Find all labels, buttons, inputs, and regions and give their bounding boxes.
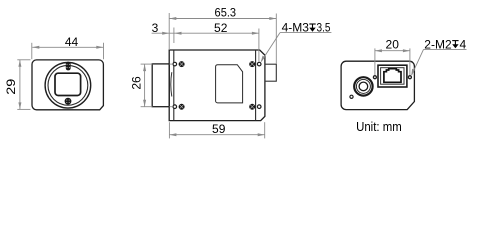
svg-text:52: 52 — [214, 21, 228, 35]
sensor window — [55, 73, 81, 95]
dimension 44 (front width) — [32, 43, 104, 59]
M2 hole right — [408, 76, 411, 79]
camera body back — [341, 61, 414, 109]
dimension 3 and 52 shared line — [152, 28, 259, 62]
connector on back (side view) — [265, 64, 276, 81]
LED — [350, 95, 353, 98]
M2 hole left — [373, 76, 376, 79]
lens mount inner circle — [48, 65, 88, 105]
svg-text:3: 3 — [152, 21, 159, 35]
M3 hole top-left — [173, 62, 177, 66]
depth symbol (4-M3) — [309, 24, 315, 28]
screw side top-left — [179, 61, 185, 67]
leader line 2-M2 — [424, 48, 467, 50]
leader line 4-M3 — [280, 32, 331, 34]
camera body front — [32, 60, 103, 110]
lens mount barrel (side) — [152, 64, 169, 107]
lens mount outer circle — [45, 63, 91, 109]
svg-text:44: 44 — [65, 35, 79, 49]
screw side bottom-right — [249, 104, 255, 110]
M3 hole bottom-left — [173, 105, 177, 109]
label sticker on side — [216, 65, 243, 103]
RJ45 outer bezel — [378, 65, 407, 87]
svg-text:26: 26 — [130, 76, 144, 90]
power connector rings — [354, 77, 372, 95]
svg-text:59: 59 — [212, 122, 226, 136]
back plate seam — [255, 50, 257, 121]
svg-text:20: 20 — [386, 38, 400, 52]
lens thread arc — [171, 72, 172, 96]
M3 hole bottom-right — [257, 105, 261, 109]
dimension 29 (front height) — [17, 60, 30, 110]
screw side top-right — [249, 61, 255, 67]
svg-text:Unit: mm: Unit: mm — [356, 120, 402, 134]
depth symbol (2-M2) — [452, 41, 458, 45]
RJ45 jack silhouette — [384, 69, 401, 83]
svg-text:65.3: 65.3 — [215, 5, 237, 19]
dimension 20 — [375, 48, 410, 75]
screw side bottom-left — [179, 104, 185, 110]
M3 hole top-right — [257, 62, 261, 66]
dimension 26 — [141, 64, 173, 107]
svg-text:29: 29 — [4, 78, 18, 94]
dimension 59 — [169, 122, 264, 138]
front plate seam — [173, 50, 175, 121]
screw front-bottom — [65, 98, 72, 105]
RJ45 inner bezel — [381, 68, 404, 85]
dimension 65.3 — [169, 13, 276, 64]
body side — [169, 50, 265, 121]
screw front-top — [66, 62, 71, 71]
